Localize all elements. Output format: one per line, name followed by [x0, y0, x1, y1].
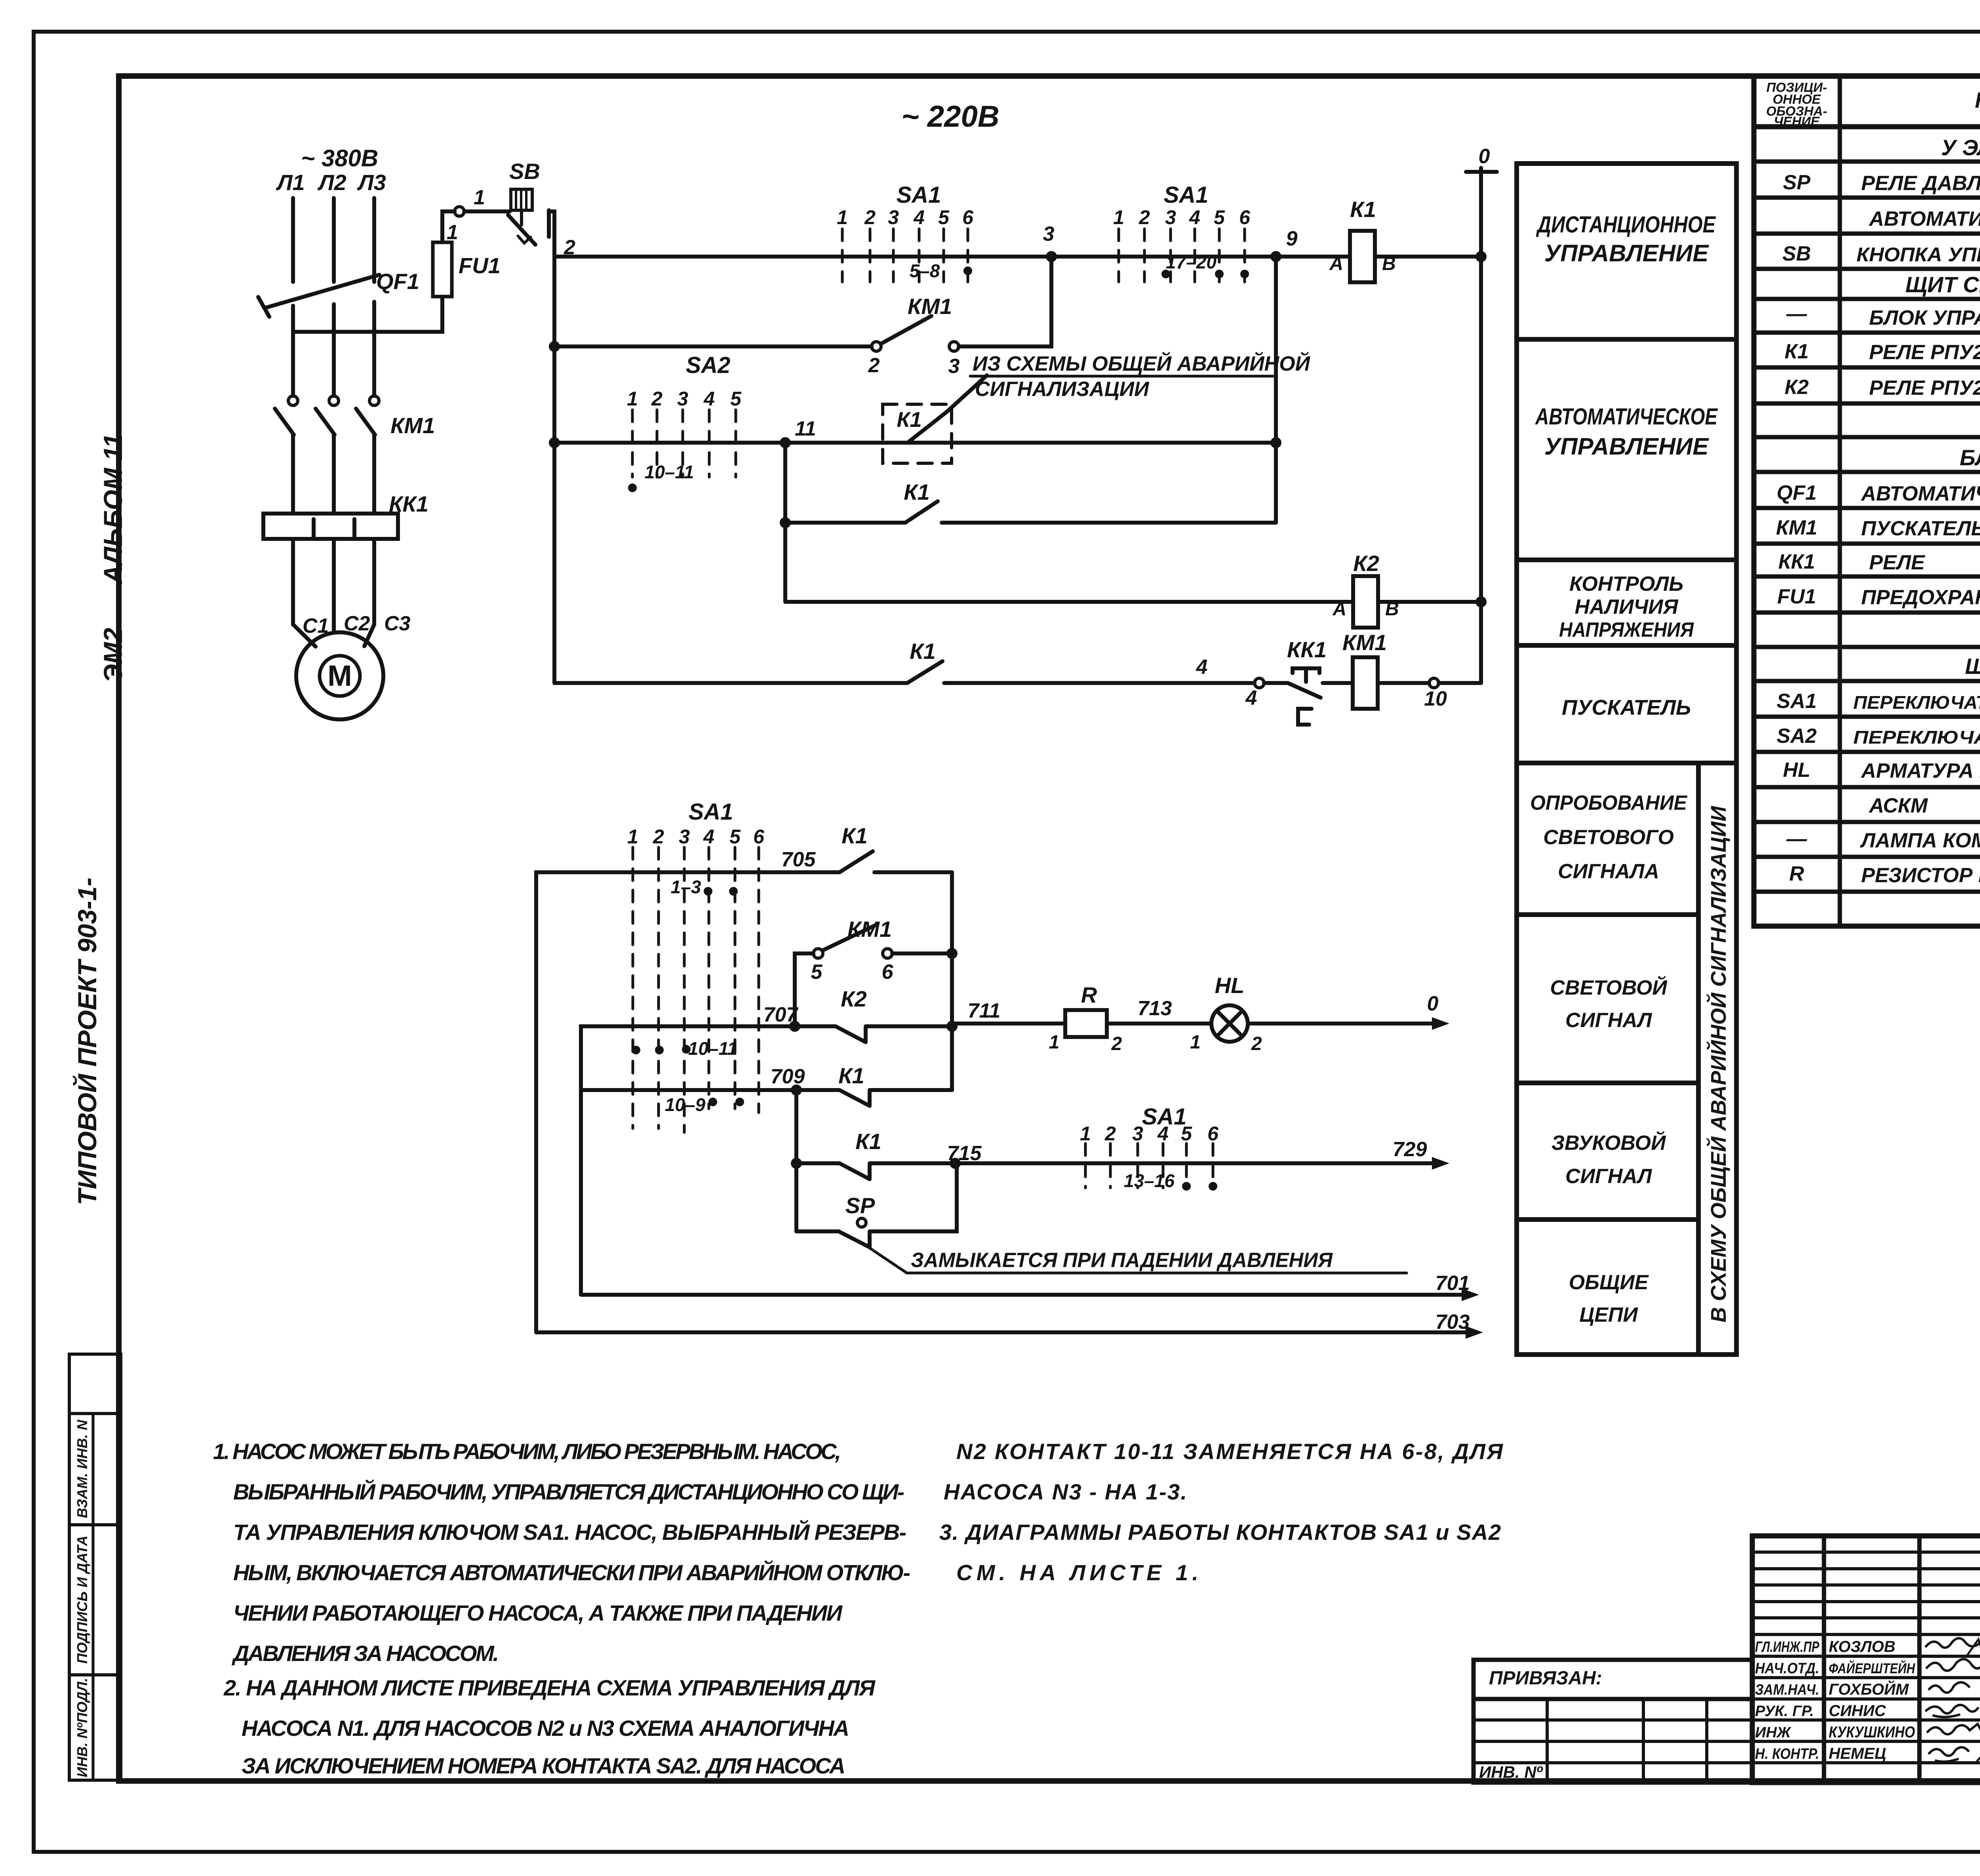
wire to button SB: [464, 209, 510, 213]
contact KK1 thermal: [1293, 668, 1319, 673]
wire tap from L1: [293, 297, 442, 332]
wire trunk2 (inner loop): [581, 1026, 836, 1295]
contact mark SA1 g2 pin6: [1240, 270, 1249, 278]
svg-text:ГЛ.ИНЖ.ПР: ГЛ.ИНЖ.ПР: [1755, 1639, 1819, 1655]
svg-text:ГОХБОЙМ: ГОХБОЙМ: [1829, 1680, 1909, 1698]
svg-text:ВЫБРАННЫЙ РАБОЧИМ, УПРАВЛЯЕТСЯ: ВЫБРАННЫЙ РАБОЧИМ, УПРАВЛЯЕТСЯ ДИСТАНЦИО…: [233, 1479, 904, 1504]
svg-text:НЕМЕЦ: НЕМЕЦ: [1829, 1745, 1886, 1762]
wire HL to 0: [1248, 1022, 1441, 1026]
svg-text:QF1: QF1: [1776, 481, 1816, 504]
svg-text:АСКМ: АСКМ: [1868, 794, 1928, 817]
svg-text:КМ1: КМ1: [1776, 516, 1817, 539]
svg-text:ЗА ИСКЛЮЧЕНИЕМ НОМЕРА КОНТАКТ: ЗА ИСКЛЮЧЕНИЕМ НОМЕРА КОНТАКТА SA2. ДЛЯ …: [242, 1753, 845, 1778]
svg-text:729: 729: [1393, 1138, 1427, 1161]
svg-text:1: 1: [627, 388, 638, 410]
starter line (Пускатель): K1 contact, KK1 contact, KM1 coil: [554, 657, 1481, 725]
svg-text:2: 2: [864, 206, 876, 228]
svg-text:ЛАМПА КОММУТАТОРНАЯ КМ-55-60: ЛАМПА КОММУТАТОРНАЯ КМ-55-60: [1860, 829, 1980, 852]
svg-text:СВЕТОВОЙ: СВЕТОВОЙ: [1550, 976, 1668, 999]
node 11 junction: [780, 437, 791, 448]
junction 705/711 vertical: [946, 948, 958, 959]
svg-text:С2: С2: [344, 612, 370, 635]
svg-text:—: —: [1786, 303, 1807, 325]
svg-text:1: 1: [474, 186, 485, 209]
wire 705 down to 711: [950, 872, 954, 1024]
node 9 junction: [1270, 251, 1281, 262]
svg-text:УПРАВЛЕНИЕ: УПРАВЛЕНИЕ: [1544, 240, 1709, 266]
name rows: [1752, 1633, 1980, 1636]
svg-text:10–11: 10–11: [645, 462, 694, 482]
junction 715 left: [791, 1158, 802, 1169]
svg-text:К1: К1: [1350, 197, 1376, 222]
svg-text:УПРАВЛЕНИЕ: УПРАВЛЕНИЕ: [1544, 433, 1709, 460]
svg-text:5: 5: [1214, 206, 1225, 228]
svg-text:А: А: [1332, 599, 1346, 620]
svg-text:3: 3: [1043, 223, 1055, 245]
svg-text:6: 6: [1239, 206, 1251, 228]
svg-text:~ 220В: ~ 220В: [901, 100, 999, 133]
svg-text:3. ДИАГРАММЫ РАБОТЫ КОНТАКТО: 3. ДИАГРАММЫ РАБОТЫ КОНТАКТОВ SA1 и SA2: [939, 1520, 1501, 1545]
wire phase L1 to motor: [293, 539, 316, 647]
svg-text:ЗАМЫКАЕТСЯ ПРИ ПАДЕНИИ ДАВЛЕНИ: ЗАМЫКАЕТСЯ ПРИ ПАДЕНИИ ДАВЛЕНИЯ: [911, 1249, 1333, 1272]
terminal circle 10: [1429, 678, 1439, 688]
junction K1 lower left: [780, 517, 791, 528]
wire 715 to SA1 group4 and 729 arrow: [955, 1161, 1441, 1165]
svg-text:713: 713: [1138, 997, 1172, 1020]
contact K1 on 709: [840, 1090, 870, 1106]
contact K1 (starter): [907, 661, 942, 683]
svg-text:6: 6: [1207, 1123, 1219, 1145]
wire rail2 left: [554, 344, 872, 348]
svg-text:ЧЕНИЕ: ЧЕНИЕ: [1774, 114, 1820, 129]
wire 709 up to 711: [950, 1026, 954, 1090]
terminal circle 1: [455, 207, 464, 216]
arrowhead 729: [1432, 1157, 1449, 1170]
svg-text:QF1: QF1: [376, 269, 419, 294]
wire starter rail left: [554, 681, 907, 685]
wire phase L1 mid: [291, 306, 295, 396]
wire 709 down branch: [794, 1090, 798, 1231]
wire to terminal 10: [1378, 681, 1429, 685]
wire 707 rail: [795, 1024, 836, 1028]
svg-text:N2 КОНТАКТ 10-11 ЗАМЕНЯЕТСЯ: N2 КОНТАКТ 10-11 ЗАМЕНЯЕТСЯ НА 6-8, ДЛЯ: [956, 1439, 1503, 1464]
svg-text:ОПРОБОВАНИЕ: ОПРОБОВАНИЕ: [1530, 791, 1687, 814]
svg-text:РУК. ГР.: РУК. ГР.: [1755, 1703, 1814, 1720]
svg-text:10: 10: [1424, 687, 1447, 710]
svg-text:SB: SB: [509, 159, 540, 184]
svg-text:4: 4: [703, 826, 714, 848]
svg-text:6: 6: [753, 826, 765, 848]
signature rows: [1755, 1639, 1819, 1762]
wire fuse to terminal 1: [442, 211, 455, 242]
svg-text:К1: К1: [838, 1063, 864, 1088]
contact mark SA1 g2 pin3: [1161, 270, 1170, 278]
svg-text:НАСОСА N1. ДЛЯ НАСОСОВ N2 и N3: НАСОСА N1. ДЛЯ НАСОСОВ N2 и N3 СХЕМА АНА…: [242, 1716, 849, 1741]
svg-text:К2: К2: [841, 986, 867, 1011]
net 0 rail: [1466, 168, 1497, 683]
contact marks SA1 g4: [1182, 1182, 1191, 1191]
svg-text:С1: С1: [303, 615, 329, 637]
wire phase L2 top: [332, 198, 336, 282]
contact K1 on 715: [840, 1163, 870, 1179]
svg-text:КК1: КК1: [1287, 637, 1327, 662]
svg-text:РЕЛЕ РПУ2 - 36020 У3Б: РЕЛЕ РПУ2 - 36020 У3Б: [1869, 377, 1980, 400]
svg-text:К1: К1: [897, 408, 921, 432]
svg-text:Л2: Л2: [317, 170, 346, 195]
svg-text:709: 709: [771, 1065, 805, 1088]
svg-text:2: 2: [653, 826, 664, 848]
svg-text:HL: HL: [1783, 759, 1810, 782]
terminal circle 4: [1255, 678, 1264, 688]
lamp circuit: [952, 1005, 1441, 1042]
contact KM1 aux: [872, 342, 881, 351]
contact SP: [796, 1229, 839, 1233]
svg-text:НЫМ, ВКЛЮЧАЕТСЯ АВТОМАТИЧЕСКИ: НЫМ, ВКЛЮЧАЕТСЯ АВТОМАТИЧЕСКИ ПРИ АВАРИЙ…: [233, 1560, 910, 1585]
svg-text:ИНВ. NºПОДЛ.: ИНВ. NºПОДЛ.: [74, 1678, 90, 1777]
svg-text:НАЛИЧИЯ: НАЛИЧИЯ: [1575, 596, 1679, 618]
svg-text:1: 1: [1049, 1032, 1060, 1053]
svg-text:1: 1: [837, 206, 848, 228]
svg-text:2: 2: [1111, 1033, 1122, 1054]
svg-text:707: 707: [763, 1003, 799, 1026]
svg-text:ПРИВЯЗАН:: ПРИВЯЗАН:: [1489, 1668, 1602, 1689]
motor M1: [296, 632, 383, 719]
svg-text:1. НАСОС МОЖЕТ БЫТЬ РАБОЧИМ, Л: 1. НАСОС МОЖЕТ БЫТЬ РАБОЧИМ, ЛИБО РЕЗЕРВ…: [213, 1439, 841, 1464]
svg-text:5: 5: [1181, 1123, 1192, 1145]
svg-text:КМ1: КМ1: [908, 294, 952, 319]
svg-text:ЦЕПИ: ЦЕПИ: [1579, 1303, 1638, 1326]
coil KM1: [1353, 657, 1378, 709]
thin top rows: [1752, 1551, 1980, 1554]
svg-text:В: В: [1385, 599, 1399, 620]
junction 707 left: [789, 1021, 800, 1032]
svg-text:КУКУШКИНО: КУКУШКИНО: [1829, 1724, 1915, 1741]
svg-text:4: 4: [1196, 656, 1208, 679]
svg-text:5: 5: [730, 388, 742, 410]
svg-text:10–9: 10–9: [665, 1094, 706, 1115]
svg-text:РЕЛЕ: РЕЛЕ: [1869, 551, 1925, 574]
lamp HL: [1211, 1005, 1248, 1042]
wire 701: [581, 1293, 1465, 1297]
svg-text:4: 4: [1245, 687, 1257, 710]
coil K2: [1353, 576, 1378, 628]
svg-text:Л1: Л1: [276, 170, 305, 195]
svg-text:ИЗ СХЕМЫ ОБЩЕЙ АВАРИЙНОЙ: ИЗ СХЕМЫ ОБЩЕЙ АВАРИЙНОЙ: [973, 352, 1311, 375]
svg-text:SA1: SA1: [897, 182, 941, 208]
svg-text:М: М: [327, 659, 352, 692]
svg-text:SA2: SA2: [686, 352, 731, 378]
svg-text:СИГНАЛИЗАЦИИ: СИГНАЛИЗАЦИИ: [975, 378, 1150, 401]
wire rail1 node2 to node9: [554, 255, 1276, 259]
svg-text:СИНИС: СИНИС: [1829, 1702, 1886, 1720]
svg-text:НАЧ.ОТД.: НАЧ.ОТД.: [1755, 1660, 1819, 1677]
svg-text:ОБЩИЕ: ОБЩИЕ: [1569, 1271, 1649, 1294]
pushbutton SB: [511, 189, 532, 210]
svg-text:2: 2: [1104, 1123, 1116, 1145]
svg-text:КМ1: КМ1: [1342, 630, 1387, 655]
svg-text:СИГНАЛА: СИГНАЛА: [1558, 860, 1659, 883]
wire to KM1 coil: [1323, 681, 1353, 685]
svg-text:КК1: КК1: [389, 491, 428, 516]
svg-text:2. НА ДАННОМ ЛИСТЕ ПРИВЕДЕНА: 2. НА ДАННОМ ЛИСТЕ ПРИВЕДЕНА СХЕМА УПРАВ…: [223, 1675, 876, 1700]
vertical node9 down: [1274, 257, 1278, 523]
wire K2 to 0: [1378, 600, 1481, 604]
svg-text:SA1: SA1: [1164, 182, 1209, 208]
svg-text:ИНВ. Nº: ИНВ. Nº: [1479, 1763, 1543, 1781]
svg-text:~ 380В: ~ 380В: [301, 145, 378, 171]
svg-text:АЛЬБОМ 11: АЛЬБОМ 11: [98, 434, 128, 585]
svg-text:К1: К1: [1785, 340, 1809, 363]
svg-text:КК1: КК1: [1778, 550, 1815, 573]
svg-text:—: —: [1786, 828, 1807, 850]
leader from SP: [870, 1248, 1407, 1273]
signature squiggles: [1925, 1638, 1980, 1764]
svg-text:К1: К1: [910, 639, 936, 664]
svg-text:5: 5: [811, 961, 823, 984]
wire 715 rail: [796, 1161, 840, 1165]
svg-text:БЛОК УПРАВЛЕНИЯ: БЛОК УПРАВЛЕНИЯ: [1960, 445, 1980, 470]
svg-text:1: 1: [1113, 206, 1124, 228]
junction 715 right: [950, 1158, 961, 1169]
svg-text:715: 715: [947, 1142, 982, 1165]
svg-text:1: 1: [1080, 1123, 1091, 1145]
relay coil K1: [1276, 231, 1481, 282]
contact K1 (auto line): [785, 501, 1276, 523]
rail2: KM1 aux contact line: [554, 257, 1051, 351]
node 3 junction: [1046, 251, 1057, 262]
svg-text:SB: SB: [1782, 242, 1811, 265]
svg-text:ИНЖ: ИНЖ: [1755, 1724, 1792, 1741]
wire SB to node 2: [549, 211, 554, 257]
svg-text:К2: К2: [1353, 551, 1379, 576]
svg-text:ДИСТАНЦИОННОЕ: ДИСТАНЦИОННОЕ: [1536, 212, 1716, 238]
svg-text:5–8: 5–8: [910, 261, 940, 281]
svg-text:К1: К1: [904, 479, 930, 504]
привязан block: [1474, 1660, 1752, 1783]
contact mark SA1 g2 pin5: [1215, 270, 1224, 278]
svg-text:К1: К1: [855, 1129, 881, 1154]
svg-text:R: R: [1789, 862, 1804, 885]
contact marks SA1 g3: [704, 887, 712, 896]
junction 709 left: [791, 1085, 802, 1096]
svg-text:ФАЙЕРШТЕЙН: ФАЙЕРШТЕЙН: [1829, 1660, 1915, 1676]
svg-text:ЧЕНИИ РАБОТАЮЩЕГО НАСОСА, А: ЧЕНИИ РАБОТАЮЩЕГО НАСОСА, А ТАКЖЕ ПРИ ПА…: [233, 1600, 843, 1625]
svg-text:1: 1: [627, 826, 638, 848]
svg-text:2: 2: [1251, 1033, 1262, 1054]
switch SA1 group3 pins: [633, 847, 759, 1132]
svg-text:ЭМ2: ЭМ2: [98, 628, 128, 683]
junction rail3 right: [1270, 437, 1281, 448]
svg-text:С3: С3: [384, 612, 411, 635]
junction K1 coil to 0 rail: [1475, 251, 1487, 262]
svg-text:9: 9: [1286, 227, 1298, 250]
thermal relay KK1 heater: [263, 514, 398, 539]
svg-text:701: 701: [1435, 1272, 1470, 1295]
breaker QF1: [265, 275, 379, 308]
stamp outer: [1752, 1536, 1980, 1783]
wire R to HL: [1107, 1022, 1211, 1026]
contact K1 in dashed box: [883, 404, 952, 463]
svg-text:РЕЗИСТОР ПЭ-25: РЕЗИСТОР ПЭ-25: [1861, 864, 1980, 887]
switch SA1 group1 pins: [842, 229, 968, 282]
svg-text:0: 0: [1479, 145, 1490, 168]
svg-text:Н. КОНТР.: Н. КОНТР.: [1755, 1746, 1819, 1762]
svg-text:5: 5: [729, 826, 741, 848]
svg-text:АВТОМАТИЧЕСКОЕ: АВТОМАТИЧЕСКОЕ: [1534, 404, 1718, 430]
svg-text:КНОПКА УПРАВЛЕНИЯ ПКУ15-21.111: КНОПКА УПРАВЛЕНИЯ ПКУ15-21.111-5 4У2: [1856, 244, 1980, 266]
wire phase L3 below KM1: [372, 435, 376, 514]
contact mark SA2 pin1: [628, 483, 637, 492]
svg-text:СИГНАЛ: СИГНАЛ: [1565, 1009, 1653, 1032]
wire phase L3 mid: [372, 302, 376, 396]
svg-text:R: R: [1081, 982, 1097, 1007]
svg-text:711: 711: [968, 999, 1001, 1022]
svg-text:ПЕРЕКЛЮЧАТЕЛЬ ПМОВФ-1366з 9,10: ПЕРЕКЛЮЧАТЕЛЬ ПМОВФ-1366з 9,102/II-Д 12Б: [1853, 692, 1980, 713]
left margin stamp boxes: [69, 1354, 121, 1414]
svg-text:2: 2: [868, 354, 880, 377]
svg-text:3: 3: [948, 355, 960, 378]
svg-text:ПОДПИСЬ И ДАТА: ПОДПИСЬ И ДАТА: [74, 1535, 90, 1664]
svg-text:1: 1: [447, 221, 458, 244]
svg-text:КМ1: КМ1: [390, 413, 435, 438]
svg-text:2: 2: [1138, 206, 1150, 228]
svg-text:3: 3: [679, 826, 690, 848]
svg-text:6: 6: [962, 206, 974, 228]
svg-text:11: 11: [795, 417, 816, 440]
svg-text:10–11: 10–11: [688, 1038, 738, 1059]
svg-text:FU1: FU1: [1777, 585, 1816, 608]
svg-text:HL: HL: [1215, 973, 1245, 998]
wire phase L2 below KM1: [332, 435, 336, 514]
svg-text:0: 0: [1427, 992, 1439, 1015]
junction trunk rail2: [549, 341, 560, 352]
svg-text:В СХЕМУ ОБЩЕЙ АВАРИЙНОЙ СИГНАЛ: В СХЕМУ ОБЩЕЙ АВАРИЙНОЙ СИГНАЛИЗАЦИИ: [1706, 806, 1731, 1322]
svg-text:4: 4: [1189, 206, 1200, 228]
svg-text:ПЕРЕКЛЮЧАТЕЛЬ ПМОФ45-224466/II: ПЕРЕКЛЮЧАТЕЛЬ ПМОФ45-224466/II-Д 13: [1853, 727, 1980, 748]
contact mark SA1 g1 pin6: [963, 266, 972, 275]
relay coil K2 line: [785, 576, 1481, 628]
svg-text:БЛОК УПРАВЛЕНИЯ: БЛОК УПРАВЛЕНИЯ: [1869, 306, 1980, 329]
wire to KK1: [1264, 681, 1288, 685]
svg-text:ЩИТ СИЛОВОЙ УПРАВЛЕНИЯ: ЩИТ СИЛОВОЙ УПРАВЛЕНИЯ: [1906, 272, 1980, 297]
svg-text:НАПРЯЖЕНИЯ: НАПРЯЖЕНИЯ: [1559, 618, 1694, 641]
svg-text:SA1: SA1: [689, 799, 733, 825]
fuse FU1: [433, 242, 452, 297]
wire 703: [536, 1330, 1469, 1334]
arrowhead 701: [1462, 1288, 1479, 1301]
svg-text:СВЕТОВОГО: СВЕТОВОГО: [1543, 826, 1674, 849]
svg-text:АРМАТУРА КОММУТАТОРНОЙ ЛАМПЫ: АРМАТУРА КОММУТАТОРНОЙ ЛАМПЫ: [1860, 759, 1980, 782]
svg-text:3: 3: [677, 388, 688, 410]
svg-text:КОЗЛОВ: КОЗЛОВ: [1829, 1638, 1895, 1655]
arrowhead 703: [1466, 1326, 1483, 1339]
svg-text:А: А: [1329, 253, 1343, 274]
svg-text:4: 4: [703, 388, 715, 410]
svg-text:SA2: SA2: [1776, 725, 1816, 748]
svg-text:703: 703: [1435, 1311, 1470, 1334]
svg-text:705: 705: [781, 848, 816, 871]
switch SA2 pins: [632, 410, 736, 477]
svg-text:ПРЕДОХРАНИТЕЛЬ: ПРЕДОХРАНИТЕЛЬ: [1861, 586, 1980, 609]
svg-text:3: 3: [1165, 206, 1176, 228]
svg-text:СИГНАЛ: СИГНАЛ: [1565, 1165, 1653, 1188]
contact K1 on 705: [840, 851, 873, 872]
svg-text:ТИПОВОЙ ПРОЕКТ 903-1-: ТИПОВОЙ ПРОЕКТ 903-1-: [72, 877, 102, 1205]
svg-text:17–20: 17–20: [1166, 252, 1217, 272]
wire rail2 right: [959, 257, 1051, 346]
svg-text:SA1: SA1: [1776, 690, 1816, 713]
contact KM1 on light test: [795, 953, 813, 1026]
vertical node11 down: [783, 443, 787, 602]
svg-text:SP: SP: [1783, 171, 1811, 194]
svg-text:ВЗАМ. ИНВ. N: ВЗАМ. ИНВ. N: [74, 1419, 90, 1518]
svg-text:РЕЛЕ РПУ2-М36 440 У3Б: РЕЛЕ РПУ2-М36 440 У3Б: [1869, 341, 1980, 364]
wire phase L2 mid: [332, 304, 336, 396]
resistor R: [1065, 1010, 1107, 1037]
wire trunk1 (outer loop): [536, 872, 840, 1332]
wire K2 rail: [785, 600, 1353, 604]
svg-text:ЗВУКОВОЙ: ЗВУКОВОЙ: [1552, 1131, 1666, 1155]
svg-text:НАСОСА N3 - НА 1-3.: НАСОСА N3 - НА 1-3.: [944, 1479, 1187, 1504]
svg-text:Л3: Л3: [357, 170, 386, 195]
arrowhead 0: [1432, 1017, 1449, 1030]
svg-text:К1: К1: [841, 823, 868, 848]
svg-text:К2: К2: [1785, 376, 1809, 399]
svg-text:4: 4: [913, 206, 925, 228]
leader to text: [947, 375, 987, 412]
svg-text:У ЭЛЕКТРОДВИГАТЕЛЯ: У ЭЛЕКТРОДВИГАТЕЛЯ: [1941, 135, 1980, 160]
switch SA1 group2 pins: [1119, 229, 1245, 282]
wire phase L3 top: [372, 198, 376, 282]
svg-text:13–16: 13–16: [1124, 1170, 1175, 1191]
svg-text:FU1: FU1: [459, 253, 501, 278]
svg-text:ПУСКАТЕЛЬ МАГНИТНЫЙ: ПУСКАТЕЛЬ МАГНИТНЫЙ: [1861, 516, 1980, 540]
svg-text:В: В: [1382, 253, 1396, 274]
wire phase L3 to motor: [364, 539, 374, 646]
contactor KM1 main contacts: [288, 396, 298, 405]
svg-text:4: 4: [1157, 1123, 1169, 1145]
svg-text:РЕЛЕ ДАВЛЕНИЯ ( ПО ПРОЕКТУ: РЕЛЕ ДАВЛЕНИЯ ( ПО ПРОЕКТУ: [1861, 172, 1980, 195]
svg-text:SP: SP: [845, 1193, 875, 1218]
svg-text:1: 1: [1190, 1032, 1201, 1053]
wire to 0 rail: [1439, 681, 1481, 685]
svg-text:ТА УПРАВЛЕНИЯ КЛЮЧОМ SA1. НАС: ТА УПРАВЛЕНИЯ КЛЮЧОМ SA1. НАСОС, ВЫБРАНН…: [233, 1520, 906, 1545]
switch SA1 group4 pins: [1085, 1143, 1213, 1188]
svg-text:2: 2: [651, 388, 663, 410]
svg-text:3: 3: [1132, 1123, 1143, 1145]
svg-text:ЩИТ УПРАВЛЕНИЯ: ЩИТ УПРАВЛЕНИЯ: [1965, 654, 1980, 679]
wire trunk vertical: [552, 257, 556, 683]
wire 711: [952, 1022, 1065, 1026]
svg-text:ЗАМ.НАЧ.: ЗАМ.НАЧ.: [1755, 1682, 1819, 1698]
wire rail3: [554, 441, 1276, 445]
contact K2 on 707: [836, 1026, 866, 1042]
svg-text:5: 5: [938, 206, 950, 228]
svg-text:КОНТРОЛЬ: КОНТРОЛЬ: [1569, 573, 1683, 596]
svg-text:ПУСКАТЕЛЬ: ПУСКАТЕЛЬ: [1562, 696, 1691, 719]
svg-text:6: 6: [882, 961, 894, 984]
svg-text:3: 3: [888, 206, 899, 228]
junction trunk rail3: [549, 437, 560, 448]
svg-text:КМ1: КМ1: [847, 917, 892, 942]
wire phase L2 to motor: [332, 539, 336, 633]
left columns verticals: [1822, 1536, 1826, 1783]
svg-text:1–3: 1–3: [671, 877, 701, 897]
wire phase L1 below KM1: [291, 435, 295, 514]
wire 709 rail: [581, 1088, 840, 1092]
rail3: SA2 line / node 11: [554, 257, 1276, 602]
junction K2 to 0: [1475, 596, 1487, 607]
